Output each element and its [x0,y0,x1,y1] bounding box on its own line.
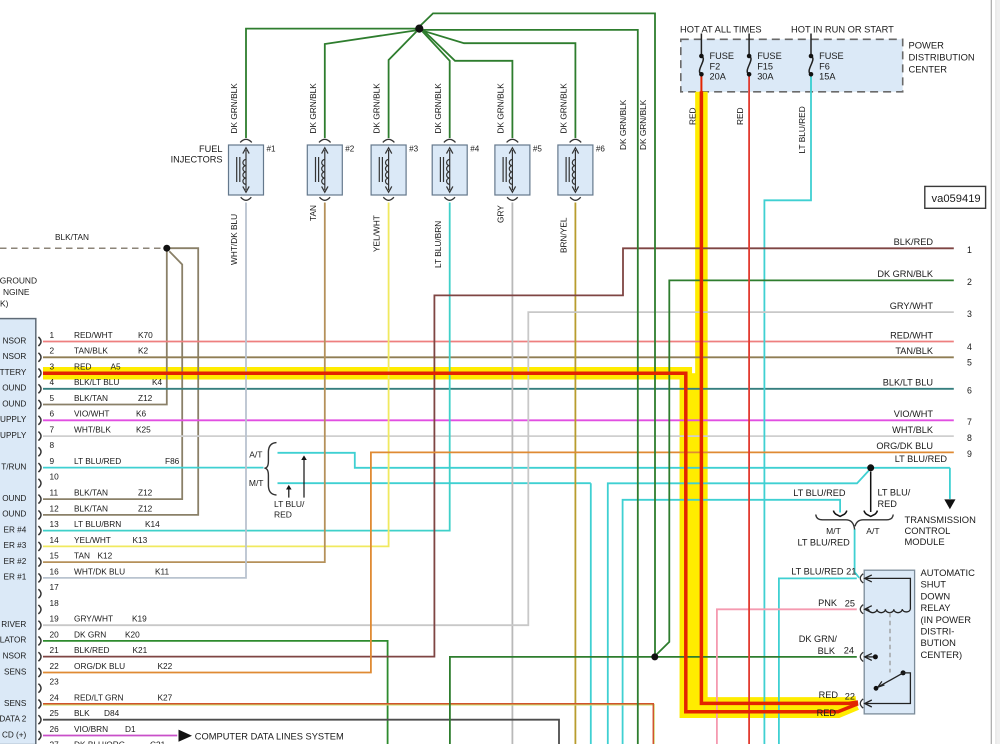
RED wire core fuse F2 to relay pin 22 [700,74,702,92]
page edge groove [997,0,1000,744]
injector #6 top connector [570,139,582,142]
relay switch blade [901,670,906,675]
injector #4 box [432,145,467,195]
junction node injector harness [415,25,423,33]
wire injector 5 GRY [511,203,513,744]
wire pin 25 BLK D84 drop [43,720,559,744]
highlight casing filler between parallel RED wires [690,373,696,706]
svg-text:F6: F6 [819,61,830,71]
wire injector 3 DK GRN/BLK [389,32,417,139]
injector #1 bottom connector [241,197,252,200]
svg-text:A/T: A/T [866,526,879,536]
svg-text:WHT/DK BLU: WHT/DK BLU [74,566,125,576]
svg-text:15A: 15A [819,72,836,82]
svg-text:WHT/BLK: WHT/BLK [892,425,934,435]
svg-text:18: 18 [50,598,60,608]
svg-text:Z12: Z12 [138,503,153,513]
wire injector 4 DK GRN/BLK [423,32,450,139]
svg-text:#3: #3 [409,145,419,154]
relay pin 24 contact [865,656,876,658]
wire pin 21 BLK/RED K21 to right row 1 [43,248,954,656]
svg-text:LT BLU/BRN: LT BLU/BRN [433,221,443,268]
wire BLK/TAN dashed ground lead [0,247,163,249]
wire pin 26 VIO/BRN D1 to data-lines arrow [43,735,177,737]
wire pin 5 BLK/TAN Z12 [43,251,167,405]
wire LT BLU/RED to M/T merge arrow [623,500,841,744]
svg-text:M/T: M/T [249,478,264,488]
svg-text:2: 2 [967,277,972,287]
junction BLK/TAN [163,245,170,252]
svg-text:3: 3 [50,361,55,371]
wire pin 24 RED/LT GRN K27 drop [43,705,654,744]
svg-text:CD (+): CD (+) [2,730,27,739]
svg-text:NSOR: NSOR [3,352,27,361]
PCM pin 11 connector [38,495,41,504]
svg-text:6: 6 [50,409,55,419]
svg-text:BLK/TAN: BLK/TAN [74,488,108,498]
svg-text:OUND: OUND [2,399,26,408]
svg-text:4: 4 [50,377,55,387]
svg-text:DK GRN: DK GRN [74,629,106,639]
injector #1 box [229,145,264,195]
svg-text:POWER: POWER [909,40,945,51]
injector #4 top connector [444,139,456,142]
svg-text:TAN: TAN [74,551,90,561]
PCM pin 4 connector [38,384,41,393]
svg-text:DK GRN/BLK: DK GRN/BLK [638,99,648,150]
wire LT BLU/RED A/T branch [278,453,950,468]
svg-text:9: 9 [50,456,55,466]
svg-text:K6: K6 [136,409,147,419]
wire LT BLU/RED fuse F6 drop [764,92,811,744]
wire pin 14 YEL/WHT K13 from injector 3 [43,203,389,547]
wire pin 7 WHT/BLK K25 [43,435,954,437]
svg-text:K22: K22 [158,661,173,671]
svg-text:DK BLU/ORG: DK BLU/ORG [74,740,125,744]
svg-text:FUSE: FUSE [819,51,844,61]
PCM pin 15 connector [38,558,41,567]
svg-text:DISTRI-: DISTRI- [921,626,955,637]
wire pin 1 RED/WHT K70 [43,341,954,343]
svg-text:RED/LT GRN: RED/LT GRN [74,692,123,702]
svg-text:7: 7 [50,425,55,435]
svg-text:RED: RED [274,510,292,520]
injector #4 bottom connector [444,197,455,200]
injector #5 box [495,145,530,195]
svg-text:CENTER): CENTER) [921,649,963,660]
svg-text:K70: K70 [138,330,153,340]
svg-text:OUND: OUND [2,384,26,393]
svg-text:K20: K20 [125,629,140,639]
svg-text:K12: K12 [98,551,113,561]
svg-text:VIO/WHT: VIO/WHT [74,409,110,419]
wire LT BLU/RED M/T branch [278,482,591,484]
wire pin 13 LT BLU/BRN K14 from injector 4 [43,203,450,531]
svg-text:VIO/WHT: VIO/WHT [894,409,934,419]
fuse wire stub 1 [700,34,702,57]
svg-text:CONTROL: CONTROL [905,525,951,536]
PCM pin 6 connector [38,416,41,425]
svg-text:5: 5 [967,358,972,368]
svg-text:LT BLU/RED: LT BLU/RED [791,567,844,577]
svg-text:D84: D84 [104,708,120,718]
svg-text:LT BLU/: LT BLU/ [274,499,305,509]
PCM pin 18 connector [38,605,41,614]
relay pin 24 connector [860,652,863,661]
svg-text:FUEL: FUEL [199,144,223,154]
svg-text:PNK: PNK [818,598,838,608]
svg-text:26: 26 [50,724,60,734]
arrow up to A/T line [303,460,305,498]
svg-text:GRY/WHT: GRY/WHT [890,301,934,311]
svg-text:RED: RED [819,690,839,700]
svg-text:DOWN: DOWN [921,590,951,601]
RED wire core PCM pin 3 A5 [43,373,858,712]
svg-text:2: 2 [50,346,55,356]
merge brace M/T A/T [816,515,893,530]
wire pin 11 BLK/TAN Z12 [43,251,182,499]
svg-text:DK GRN/BLK: DK GRN/BLK [229,83,239,134]
svg-text:F86: F86 [165,456,180,466]
svg-text:K11: K11 [155,566,170,576]
wire injector 2 DK GRN/BLK [325,30,416,138]
svg-text:TAN/BLK: TAN/BLK [74,346,108,356]
svg-text:K4: K4 [152,377,163,387]
svg-text:23: 23 [50,677,60,687]
svg-text:DK GRN/BLK: DK GRN/BLK [618,99,628,150]
svg-text:BLK/RED: BLK/RED [74,645,110,655]
svg-text:WHT/DK BLU: WHT/DK BLU [229,214,239,265]
svg-text:YEL/WHT: YEL/WHT [74,535,111,545]
injector #2 coil symbol [316,150,325,190]
svg-text:RED: RED [687,107,697,125]
svg-text:K): K) [0,298,9,308]
svg-text:RED/WHT: RED/WHT [74,330,113,340]
wire DK GRN/BLK trunk A [423,30,638,744]
svg-text:K27: K27 [158,692,173,702]
svg-text:va059419: va059419 [932,193,981,205]
svg-text:GRY/WHT: GRY/WHT [74,614,113,624]
svg-text:21: 21 [846,567,856,577]
svg-text:OUND: OUND [2,510,26,519]
svg-text:SENS: SENS [4,699,27,708]
svg-text:9: 9 [967,449,972,459]
svg-text:4: 4 [967,342,972,352]
power distribution center box [681,39,903,92]
svg-text:LT BLU/RED: LT BLU/RED [74,456,121,466]
svg-text:HOT AT ALL TIMES: HOT AT ALL TIMES [680,25,762,35]
svg-text:DISTRIBUTION: DISTRIBUTION [909,52,975,63]
svg-text:K13: K13 [133,535,148,545]
svg-text:LT BLU/BRN: LT BLU/BRN [74,519,121,529]
svg-text:Z12: Z12 [138,488,153,498]
svg-text:BLK/RED: BLK/RED [894,237,934,247]
injector #2 box [307,145,342,195]
relay coil [869,609,911,613]
svg-text:16: 16 [50,566,60,576]
svg-text:RIVER: RIVER [1,620,26,629]
PCM pin 23 connector [38,684,41,693]
injector #3 bottom connector [383,197,394,200]
svg-text:UPPLY: UPPLY [0,415,27,424]
injector #3 top connector [383,139,395,142]
injector #3 coil symbol [379,150,388,190]
svg-text:DK GRN/BLK: DK GRN/BLK [308,83,318,134]
svg-text:F2: F2 [710,61,721,71]
svg-text:30A: 30A [757,72,774,82]
wire pin 20 DK GRN K20 drop [43,641,388,744]
wire DK GRN/BLK right row 2 riser [657,280,954,654]
PCM pin 19 connector [38,621,41,630]
arrow up to M/T line [288,489,290,498]
svg-text:A/T: A/T [249,450,262,460]
fuse wire stub 2 [748,34,750,57]
PCM pin 26 connector [38,731,41,740]
svg-text:K19: K19 [132,614,147,624]
PCM pin 3 connector [38,369,41,378]
svg-text:SHUT: SHUT [921,579,947,590]
PCM pin 2 connector [38,353,41,362]
injector #5 bottom connector [507,197,518,200]
wire pin 6 VIO/WHT K6 [43,419,954,421]
svg-text:ER #4: ER #4 [4,525,27,534]
fuse F6 lower stub [810,74,812,92]
wire LT BLU/RED to TCM [949,468,951,499]
PCM pin 24 connector [38,700,41,709]
svg-text:K14: K14 [145,519,160,529]
wire LT BLU/RED M/T drop [590,483,592,744]
wire pin 2 TAN/BLK K2 [43,356,954,358]
fuse F6 dots [809,54,814,59]
svg-text:RELAY: RELAY [921,602,952,613]
highlight casing: RED wire PCM pin 3 circuit A5 [43,373,857,712]
wire pin 22 ORG/DK BLU K22 to right row 9 [43,452,954,672]
svg-text:YEL/WHT: YEL/WHT [372,215,382,252]
PCM pin 20 connector [38,636,41,645]
svg-text:DATA 2: DATA 2 [0,715,27,724]
wire DK GRN/BLK to ASD relay pin 24 [450,657,857,744]
relay pin 22 connector [860,699,863,708]
injector #5 top connector [507,139,519,142]
svg-text:RED/WHT: RED/WHT [890,330,933,340]
svg-text:LT BLU/: LT BLU/ [878,488,911,498]
injector #6 bottom connector [570,197,581,200]
junction DK GRN/BLK [651,653,658,660]
wire pin 9 LT BLU/RED F86 to A/T-M/T brace [43,467,264,469]
wire RED fuse F15 drop [748,74,750,744]
svg-text:K25: K25 [136,425,151,435]
svg-text:C21: C21 [150,740,166,744]
svg-text:LT BLU/RED: LT BLU/RED [895,454,948,464]
svg-text:1: 1 [967,245,972,255]
svg-text:BRN/YEL: BRN/YEL [559,217,569,253]
svg-text:15: 15 [50,551,60,561]
svg-text:GROUND: GROUND [0,276,37,286]
PCM pin 5 connector [38,400,41,409]
svg-text:10: 10 [50,472,60,482]
svg-text:(IN POWER: (IN POWER [921,614,972,625]
svg-text:1: 1 [50,330,55,340]
svg-text:OUND: OUND [2,494,26,503]
wire pin 16 WHT/DK BLU K11 from injector 1 [43,203,246,578]
svg-text:HOT IN RUN OR START: HOT IN RUN OR START [791,25,894,35]
PCM pin 14 connector [38,542,41,551]
fuse wire stub 3 [810,34,812,57]
svg-text:#6: #6 [596,145,606,154]
injector #1 top connector [240,139,252,142]
svg-text:LATOR: LATOR [0,636,26,645]
svg-text:TAN: TAN [308,205,318,221]
svg-text:#5: #5 [533,145,543,154]
svg-text:ER #3: ER #3 [4,541,27,550]
svg-text:RED: RED [878,499,898,509]
svg-text:FUSE: FUSE [710,51,735,61]
injector #2 bottom connector [320,197,331,200]
svg-text:#2: #2 [345,145,355,154]
injector #1 coil symbol [237,150,246,190]
wire pin 12 BLK/TAN Z12 [43,248,198,515]
svg-text:7: 7 [967,417,972,427]
va059419 id box [925,186,986,208]
PCM pin 7 connector [38,432,41,441]
svg-text:LT BLU/RED: LT BLU/RED [797,106,807,153]
svg-text:CENTER: CENTER [909,64,948,75]
svg-text:LT BLU/RED: LT BLU/RED [798,537,851,547]
PCM pin 17 connector [38,589,41,598]
arrow computer data lines [179,730,193,742]
svg-text:14: 14 [50,535,60,545]
svg-text:NSOR: NSOR [3,652,27,661]
arrowhead M/T wire into brace [833,511,846,517]
svg-text:24: 24 [844,646,854,656]
highlight casing: RED wire fuse F2 to ASD relay pin 22 [701,92,856,704]
svg-text:DK GRN/BLK: DK GRN/BLK [496,83,506,134]
svg-text:DK GRN/BLK: DK GRN/BLK [433,83,443,134]
PCM pin 12 connector [38,510,41,519]
svg-text:24: 24 [50,692,60,702]
svg-text:UPPLY: UPPLY [0,431,27,440]
svg-text:22: 22 [845,692,855,702]
relay dashed actuator link [889,613,891,673]
page border right [990,0,992,744]
relay pin 21 connector [860,574,863,583]
PCM pin 21 connector [38,652,41,661]
PCM pin 22 connector [38,668,41,677]
svg-text:VIO/BRN: VIO/BRN [74,724,108,734]
svg-text:DK GRN/BLK: DK GRN/BLK [372,83,382,134]
svg-text:20A: 20A [710,72,727,82]
wire injector 6 BRN/YEL [574,203,576,744]
automatic shut down relay box [864,570,914,714]
svg-text:3: 3 [967,309,972,319]
svg-text:NSOR: NSOR [3,336,27,345]
svg-text:BLK/LT BLU: BLK/LT BLU [883,378,933,388]
PCM pin 1 connector [38,337,41,346]
arrowhead to transmission control module [944,499,955,509]
svg-text:RED: RED [74,361,92,371]
svg-text:F15: F15 [757,61,773,71]
svg-text:22: 22 [50,661,60,671]
svg-text:DK GRN/BLK: DK GRN/BLK [877,269,934,279]
svg-text:K2: K2 [138,346,149,356]
wire DK GRN/BLK trunk B to junction [421,13,656,654]
svg-text:T/RUN: T/RUN [1,462,26,471]
injector #5 coil symbol [503,150,512,190]
relay pin 22 internal lead [865,673,911,704]
fuse F15 dots [747,54,752,59]
svg-text:A5: A5 [111,361,122,371]
relay pin 25 connector [860,605,863,614]
svg-text:ORG/DK BLU: ORG/DK BLU [876,441,933,451]
svg-text:BLK/TAN: BLK/TAN [55,232,89,242]
injector #3 box [371,145,406,195]
svg-text:LT BLU/RED: LT BLU/RED [793,488,846,498]
brace pin 9 split [264,443,276,495]
junction LT BLU/RED [867,464,874,471]
wire PNK to ASD relay pin 25 [717,609,857,744]
wire injector 1 DK GRN/BLK [246,29,416,138]
svg-text:TTERY: TTERY [0,368,27,377]
PCM pin 25 connector [38,715,41,724]
PCM pin 9 connector [38,463,41,472]
svg-text:M/T: M/T [826,526,841,536]
svg-text:8: 8 [967,433,972,443]
PCM pin 13 connector [38,526,41,535]
svg-text:ER #1: ER #1 [4,573,27,582]
svg-text:13: 13 [50,519,60,529]
fuse F15 element [747,56,751,74]
svg-text:ER #2: ER #2 [4,557,27,566]
svg-text:SENS: SENS [4,667,27,676]
svg-text:BLK: BLK [74,708,90,718]
wire pin 19 GRY/WHT K19 to right row 3 [43,312,954,625]
svg-text:DK GRN/BLK: DK GRN/BLK [559,83,569,134]
svg-text:INJECTORS: INJECTORS [171,155,223,165]
svg-text:25: 25 [50,708,60,718]
svg-text:21: 21 [50,645,60,655]
wire LT BLU/RED relay pin 21 to left drop [779,578,857,744]
svg-text:17: 17 [50,582,60,592]
svg-text:NGINE: NGINE [3,287,30,297]
svg-text:AUTOMATIC: AUTOMATIC [921,567,976,578]
svg-text:FUSE: FUSE [757,51,782,61]
wire LT BLU/RED riser to junction [608,469,871,744]
svg-text:8: 8 [50,440,55,450]
svg-text:5: 5 [50,393,55,403]
svg-text:6: 6 [967,386,972,396]
svg-text:MODULE: MODULE [905,536,945,547]
arrow junction down to brace A/T [870,472,872,513]
fuse F6 element [809,56,813,74]
PCM pin 16 connector [38,573,41,582]
injector #6 coil symbol [566,150,575,190]
svg-text:Z12: Z12 [138,393,153,403]
svg-text:19: 19 [50,614,60,624]
svg-text:BLK/TAN: BLK/TAN [74,393,108,403]
PCM connector C1 (left, cut off) [0,319,36,744]
svg-text:TAN/BLK: TAN/BLK [895,346,933,356]
svg-text:K21: K21 [133,645,148,655]
svg-text:#4: #4 [470,145,480,154]
svg-text:WHT/BLK: WHT/BLK [74,425,111,435]
svg-text:GRY: GRY [496,205,506,223]
svg-text:BLK/TAN: BLK/TAN [74,503,108,513]
svg-text:27: 27 [50,740,60,744]
PCM pin 10 connector [38,479,41,488]
relay pin 21 internal lead [865,578,911,609]
wire injector 6 DK GRN/BLK [422,30,576,138]
injector #4 coil symbol [440,150,449,190]
